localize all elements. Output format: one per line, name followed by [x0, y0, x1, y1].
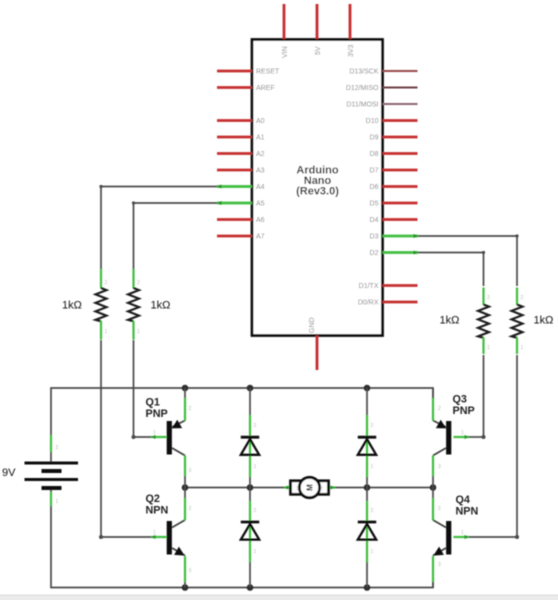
resistor R1 1k (A4 net) [96, 288, 107, 321]
svg-text:1: 1 [521, 345, 524, 351]
svg-text:RESET: RESET [256, 69, 280, 76]
wire D2 vertical down to R3 [483, 253, 485, 287]
svg-text:A6: A6 [256, 217, 265, 224]
pin D0/RX [383, 301, 418, 304]
node corner D3 [515, 234, 518, 237]
wire to Q3 base [469, 436, 484, 438]
wire D3 horizontal [418, 235, 517, 237]
svg-text:D11/MOSI: D11/MOSI [346, 102, 378, 109]
svg-text:2: 2 [137, 280, 140, 286]
pin D1/TX [383, 284, 418, 287]
svg-text:2: 2 [254, 423, 257, 429]
wire mid-left rail (motor left) [185, 487, 284, 489]
IC U1 Arduino Nano body [252, 40, 383, 336]
node corner at Q1 base [132, 435, 136, 439]
transistor Q1 PNP [146, 388, 186, 488]
svg-text:1: 1 [56, 499, 59, 505]
wire to Q2 base [101, 536, 151, 538]
svg-text:D1/TX: D1/TX [359, 283, 379, 290]
pin 5V [316, 4, 319, 39]
svg-text:1: 1 [461, 430, 464, 436]
svg-text:A3: A3 [256, 168, 265, 175]
svg-text:NPN: NPN [146, 505, 169, 517]
wire D3 vertical down to R4 [516, 236, 518, 286]
wire top rail (battery + to Q1/Q3 emitters, diode cathodes) [51, 388, 433, 462]
pin A6 [217, 218, 252, 221]
wire R2 bottom green lead [132, 321, 134, 340]
svg-text:D13/SCK: D13/SCK [349, 69, 379, 76]
diode D6 (lower left) [241, 488, 259, 588]
transistor Q2 NPN [146, 488, 186, 588]
wire R1 down to Q2 base row [100, 340, 102, 537]
pin D2 (green, connected) [383, 251, 419, 254]
svg-text:2: 2 [487, 295, 490, 301]
pin D12/MISO [383, 87, 418, 89]
svg-text:2: 2 [56, 445, 59, 451]
svg-text:A2: A2 [256, 151, 265, 158]
svg-text:A5: A5 [256, 201, 265, 208]
resistor R2 1k (A5 net) [128, 288, 139, 321]
svg-text:D10: D10 [366, 118, 379, 125]
svg-text:3: 3 [438, 464, 441, 470]
wire to Q1 base [134, 436, 152, 438]
wire bottom rail (battery - to Q2/Q4 emitters, diode anodes) [51, 490, 433, 588]
svg-text:Q1: Q1 [146, 397, 160, 409]
transistor Q3 PNP [433, 388, 475, 488]
svg-text:VIN: VIN [282, 46, 289, 58]
node mid-left / left diodes junction [247, 484, 254, 491]
pin A2 [217, 152, 252, 155]
wire A5 vertical down to R2 [133, 203, 135, 269]
wire Q4 base green lead [454, 536, 470, 538]
pin D7 [383, 169, 418, 172]
bottom window strip [0, 595, 558, 600]
svg-text:1: 1 [487, 345, 490, 351]
wire Q3 base green lead [454, 436, 470, 438]
pin A0 [217, 119, 252, 122]
node mid-left / Q1-Q2 collectors [182, 484, 189, 491]
svg-text:1kΩ: 1kΩ [151, 300, 171, 312]
wire D2 horizontal [418, 252, 484, 254]
pin D11/MOSI [383, 103, 418, 105]
svg-text:Q3: Q3 [453, 394, 467, 406]
resistor R4 1k (D3 net) [512, 305, 523, 338]
pin GND [316, 336, 319, 371]
diode D7 (upper right) [358, 388, 376, 488]
node bottom rail / D8 anode [364, 584, 371, 591]
svg-text:PNP: PNP [146, 408, 168, 420]
svg-text:2: 2 [320, 486, 323, 492]
pin D6 [383, 185, 418, 188]
wire motor left green stub [284, 486, 291, 488]
pin A4 (green, connected) [217, 185, 252, 188]
svg-text:GND: GND [309, 317, 316, 333]
svg-text:D12/MISO: D12/MISO [346, 85, 379, 92]
node bottom rail / D6 anode [247, 584, 254, 591]
diode D8 (lower right) [358, 488, 376, 588]
svg-text:NPN: NPN [456, 506, 479, 518]
pin D9 [383, 136, 418, 139]
svg-text:A0: A0 [256, 118, 265, 125]
svg-text:1: 1 [153, 430, 156, 436]
wire R3 down to Q3 base row [483, 355, 485, 437]
wire A5 horizontal [134, 202, 218, 204]
svg-text:D6: D6 [370, 184, 379, 191]
svg-text:D8: D8 [370, 151, 379, 158]
svg-text:1: 1 [296, 486, 299, 492]
svg-text:1: 1 [371, 549, 374, 555]
node corner at Q4 base [515, 535, 519, 539]
wire battery + lead green [50, 435, 52, 452]
svg-text:1: 1 [461, 530, 464, 536]
wire R3 bottom green lead [482, 338, 484, 355]
node bottom rail / Q2 emitter [182, 584, 189, 591]
pin D3 (green, connected) [383, 235, 419, 238]
wire mid-right rail (motor right) [335, 487, 433, 489]
svg-text:3: 3 [189, 568, 192, 574]
svg-text:PNP: PNP [453, 405, 475, 417]
node corner D2 [482, 251, 485, 254]
node top rail / Q1 emitter [182, 385, 189, 392]
node mid-right / right diodes junction [364, 484, 371, 491]
wire R4 down to Q4 base row [516, 355, 518, 537]
wire to Q4 base [469, 536, 517, 538]
svg-text:3: 3 [438, 562, 441, 568]
pin A1 [217, 136, 252, 139]
svg-text:1kΩ: 1kΩ [534, 315, 554, 327]
node top rail / D5 cathode [247, 385, 254, 392]
pin D5 [383, 202, 418, 205]
svg-text:3V3: 3V3 [348, 44, 355, 57]
pin A5 (green, connected) [217, 202, 252, 205]
svg-text:2: 2 [189, 506, 192, 512]
svg-text:2: 2 [189, 406, 192, 412]
svg-text:2: 2 [371, 423, 374, 429]
diode D5 (upper left) [241, 388, 259, 488]
wire R1 bottom green lead [100, 321, 102, 340]
svg-text:2: 2 [371, 508, 374, 514]
wire Q2 base green lead [151, 536, 167, 538]
wire R3 top green lead [482, 288, 484, 306]
svg-text:A1: A1 [256, 135, 265, 142]
svg-text:1: 1 [137, 329, 140, 335]
svg-text:(Rev3.0): (Rev3.0) [296, 186, 339, 198]
wire motor right green stub [328, 486, 335, 488]
svg-text:1: 1 [371, 464, 374, 470]
svg-text:D4: D4 [370, 217, 379, 224]
svg-text:1: 1 [254, 464, 257, 470]
svg-text:9V: 9V [2, 467, 16, 479]
motor M1 body [291, 481, 329, 495]
svg-text:1kΩ: 1kΩ [440, 315, 460, 327]
svg-text:A4: A4 [256, 184, 265, 191]
resistor R3 1k (D2 net) [478, 305, 489, 338]
svg-text:2: 2 [105, 280, 108, 286]
svg-text:A7: A7 [256, 234, 265, 241]
svg-text:Q4: Q4 [456, 494, 470, 506]
svg-text:AREF: AREF [256, 85, 275, 92]
svg-text:Q2: Q2 [146, 493, 160, 505]
wire battery - lead green [50, 492, 52, 506]
wire R2 top green lead [132, 269, 134, 289]
svg-text:2: 2 [438, 406, 441, 412]
svg-text:D3: D3 [370, 234, 379, 241]
node corner at Q2 base [99, 535, 103, 539]
svg-text:1: 1 [254, 549, 257, 555]
wire A4 horizontal [101, 186, 217, 188]
svg-text:2: 2 [254, 508, 257, 514]
wire Q1 base green lead [151, 436, 167, 438]
svg-text:M: M [305, 484, 314, 491]
svg-text:1kΩ: 1kΩ [62, 300, 82, 312]
svg-text:2: 2 [521, 295, 524, 301]
wire R2 down to Q1 base row [133, 340, 135, 437]
svg-text:3: 3 [189, 468, 192, 474]
transistor Q4 NPN [433, 488, 478, 588]
pin D13/SCK [383, 70, 418, 72]
pin D8 [383, 152, 418, 155]
pin D4 [383, 218, 418, 221]
battery BAT1 9V plates [25, 462, 79, 465]
node mid-right / Q3-Q4 collectors [430, 484, 437, 491]
node corner A4 [99, 185, 102, 188]
svg-text:D7: D7 [370, 168, 379, 175]
pin A7 [217, 235, 252, 238]
svg-text:D9: D9 [370, 135, 379, 142]
node corner A5 [132, 201, 135, 204]
svg-text:1: 1 [105, 329, 108, 335]
wire R4 top green lead [516, 288, 518, 306]
svg-text:D0/RX: D0/RX [358, 300, 379, 307]
svg-text:D5: D5 [370, 201, 379, 208]
pin D10 [383, 119, 418, 122]
svg-text:1: 1 [153, 530, 156, 536]
pin A3 [217, 169, 252, 172]
pin 3V3 [349, 4, 352, 39]
pin RESET [217, 70, 252, 73]
wire R4 bottom green lead [516, 338, 518, 355]
faint pin number marks [56, 280, 524, 574]
svg-text:2: 2 [438, 506, 441, 512]
node top rail / D7 cathode [364, 385, 371, 392]
svg-text:D2: D2 [370, 250, 379, 257]
svg-text:5V: 5V [315, 46, 322, 55]
wire A4 vertical down to R1 [100, 187, 102, 270]
pin AREF [217, 86, 252, 89]
pin VIN [283, 4, 286, 39]
wire R1 top green lead [100, 269, 102, 289]
node corner at Q3 base [482, 435, 486, 439]
